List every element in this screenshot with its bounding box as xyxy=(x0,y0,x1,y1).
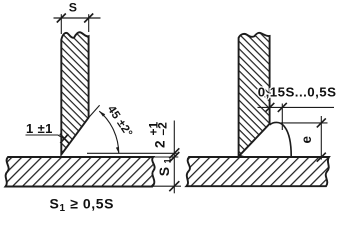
svg-text:1: 1 xyxy=(162,158,172,163)
svg-text:S: S xyxy=(156,167,172,176)
horizontal reference line of angle xyxy=(87,152,177,154)
angle label 45±2 xyxy=(105,104,135,140)
label 1±1 xyxy=(26,121,69,143)
dimension 0,15S...0,5S xyxy=(258,85,337,131)
svg-text:–2: –2 xyxy=(156,122,170,136)
lower plate left figure xyxy=(6,157,155,187)
svg-text:S1 ≥ 0,5S: S1 ≥ 0,5S xyxy=(50,195,115,214)
dimension S extension lines xyxy=(61,14,88,34)
svg-text:1 ±1: 1 ±1 xyxy=(26,121,53,136)
dimension e xyxy=(281,116,328,162)
svg-text:0,15S...0,5S: 0,15S...0,5S xyxy=(258,85,337,100)
svg-text:S: S xyxy=(69,1,77,15)
bevel extension line xyxy=(89,105,100,117)
svg-text:e: e xyxy=(299,136,314,144)
gap dimension 2 +1 -2 xyxy=(147,121,180,194)
vertical plate right figure xyxy=(239,33,270,155)
weld bead xyxy=(270,122,292,157)
dimension S1 xyxy=(152,158,181,191)
dimension S line xyxy=(54,17,101,19)
dimension S tick left xyxy=(57,14,66,23)
dimension S tick right xyxy=(84,14,93,23)
lower plate right figure xyxy=(187,157,330,186)
angle arc 45 deg xyxy=(99,111,119,154)
vertical plate left figure xyxy=(61,32,88,154)
svg-text:2: 2 xyxy=(152,140,167,148)
